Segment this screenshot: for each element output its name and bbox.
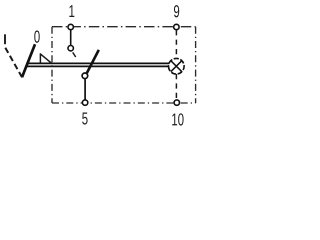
mechanical linkage bar (double line): [27, 63, 170, 66]
actuator position-0 end stop tick: [4, 34, 6, 44]
moving contact blade: [87, 50, 99, 73]
terminal 1 label: [69, 5, 74, 17]
wire pivot to terminal 5: [84, 79, 86, 100]
blade pivot contact: [82, 73, 88, 79]
switch housing dashed enclosure top edge: [52, 26, 196, 28]
actuator lever: [22, 44, 35, 77]
position label 0: [34, 31, 39, 43]
terminal 1: [68, 24, 73, 29]
detent latch symbol: [40, 53, 51, 63]
moving blade alternate position dash: [73, 52, 76, 57]
dashed wire terminal 9 to lamp: [175, 30, 177, 58]
dashed wire lamp to terminal 10: [175, 74, 177, 99]
terminal 9: [174, 24, 179, 29]
terminal 5 label: [82, 113, 87, 125]
terminal 9 label: [174, 5, 179, 17]
terminal 10: [174, 100, 179, 105]
terminal 5: [82, 100, 87, 105]
actuator lever alternate position (dashed): [5, 47, 22, 77]
switch housing dashed enclosure right edge: [195, 27, 197, 103]
illumination lamp: [168, 58, 184, 74]
switch housing dashed enclosure left edge: [51, 27, 53, 103]
wire terminal 1 to fixed contact: [70, 30, 72, 45]
switch housing dashed enclosure bottom edge: [52, 102, 196, 104]
terminal 10 label: [172, 113, 183, 125]
fixed contact of terminal 1: [68, 46, 73, 51]
